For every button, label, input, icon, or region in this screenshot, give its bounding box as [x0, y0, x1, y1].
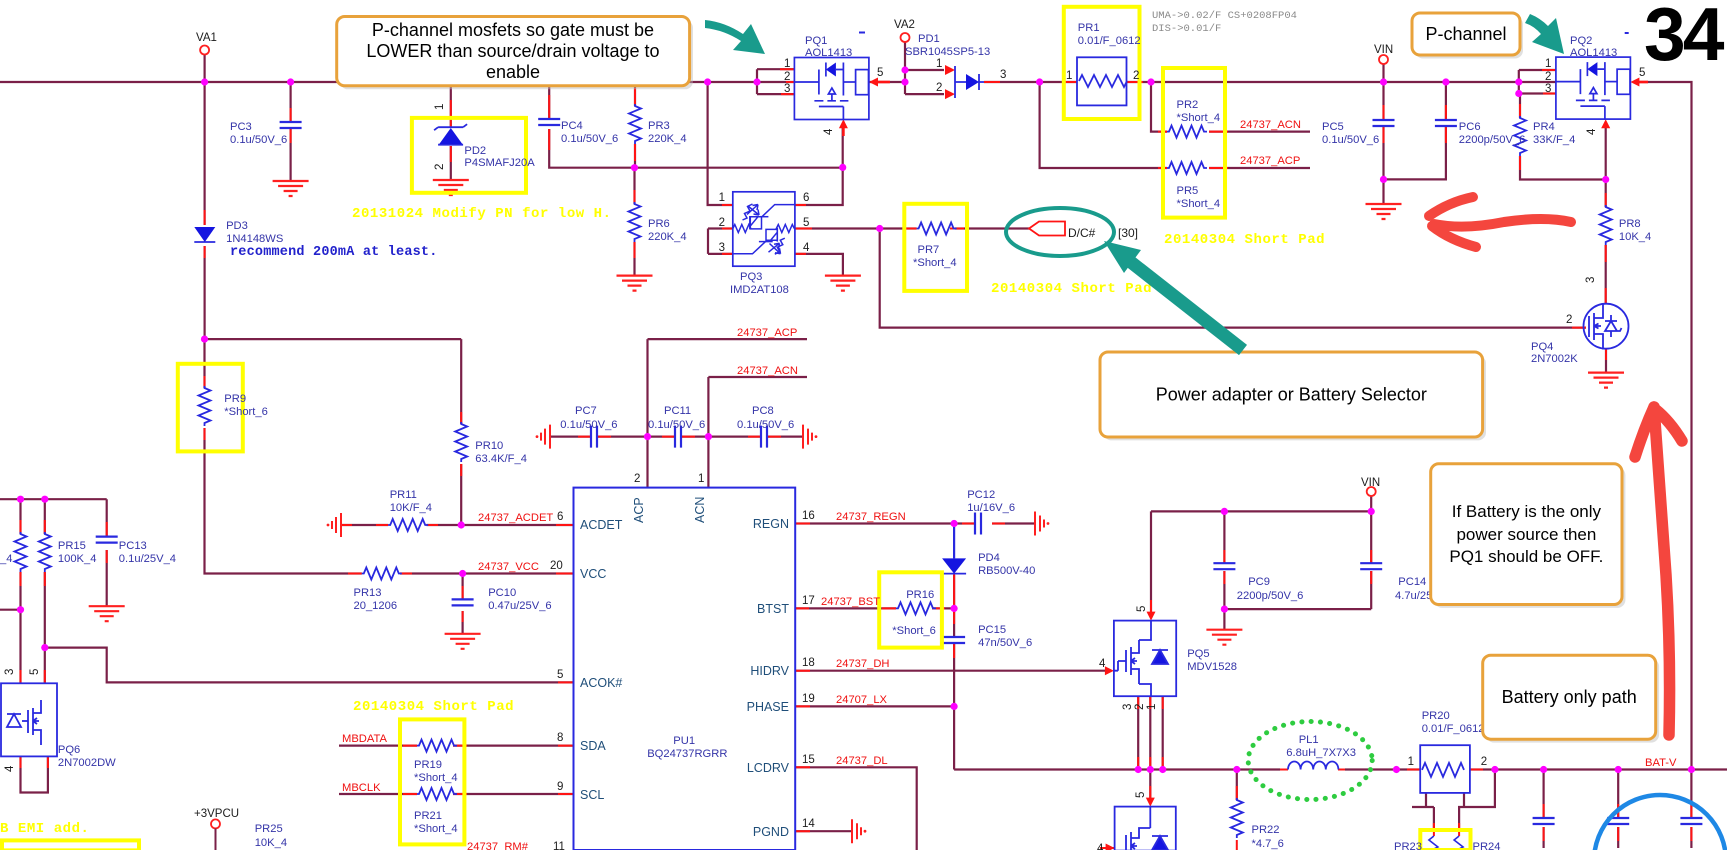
box resistor PR20	[1420, 745, 1470, 793]
wire LCDRV net	[795, 767, 917, 850]
svg-text:20: 20	[550, 560, 563, 572]
wire PQ2 source bracket pins 1,2,3	[1519, 70, 1556, 94]
pin arrow PQ5B pin5 top	[1146, 798, 1155, 807]
svg-text:20131024 Modify PN for low H.: 20131024 Modify PN for low H.	[352, 206, 612, 222]
svg-text:1: 1	[1146, 704, 1158, 710]
svg-text:3: 3	[1122, 704, 1134, 710]
svg-text:1: 1	[698, 473, 704, 485]
resistor PR4	[1514, 116, 1526, 156]
wire PD1 anode stubs	[905, 70, 944, 94]
capacitor BAT cap3	[1680, 818, 1702, 824]
svg-text:15: 15	[802, 754, 815, 766]
svg-text:PR25: PR25	[255, 823, 283, 835]
svg-text:24737_ACN: 24737_ACN	[737, 365, 798, 377]
pin stub left resistors	[21, 520, 45, 586]
wire PQ2 gate down	[1605, 126, 1607, 180]
svg-text:PC3: PC3	[230, 121, 252, 133]
wire VIN2 stub	[1370, 496, 1372, 511]
svg-text:2: 2	[1481, 756, 1487, 768]
svg-text:4: 4	[823, 128, 835, 135]
svg-text:PQ4: PQ4	[1531, 341, 1553, 353]
resistor PR11	[388, 519, 428, 531]
wire PR15 branch	[44, 499, 46, 647]
svg-text:PHASE: PHASE	[747, 700, 789, 714]
svg-text:PR3: PR3	[648, 120, 670, 132]
teal arrow to D/C#	[1127, 259, 1243, 350]
svg-text:[30]: [30]	[1118, 226, 1138, 240]
svg-text:*Short_4: *Short_4	[414, 772, 458, 784]
pin arrow PQ2 pin4	[1601, 119, 1610, 128]
pin stub PL1	[1280, 769, 1345, 771]
node PQ3 feed	[704, 78, 711, 85]
wire PR2 out 24737_ACN	[1209, 131, 1310, 133]
svg-text:SBR1045SP5-13: SBR1045SP5-13	[905, 46, 990, 58]
node PQ3 pin5	[876, 225, 883, 232]
wire REGN net	[795, 522, 1035, 524]
diode PD3	[194, 227, 215, 242]
node PQ5 p3	[1135, 766, 1142, 773]
pin stub PR3	[634, 88, 636, 161]
svg-text:enable: enable	[486, 62, 540, 82]
capacitor PC8	[761, 426, 767, 448]
svg-text:6.8uH_7X7X3: 6.8uH_7X7X3	[1286, 747, 1356, 759]
node BAT cap1	[1540, 766, 1547, 773]
wire PR1 out to VIN rail	[1127, 81, 1384, 83]
svg-text:3: 3	[784, 83, 790, 95]
wire cap row PC7 PC11 PC8	[550, 436, 803, 438]
wire HIDRV net to PQ5 gate	[795, 670, 1106, 672]
wire SCL net	[339, 793, 574, 795]
wire PC10 branch	[462, 574, 464, 634]
pin stub PQ2 pins	[1542, 70, 1556, 94]
svg-text:2: 2	[1545, 71, 1551, 83]
svg-text:24737_DL: 24737_DL	[836, 755, 888, 767]
svg-text:PD2: PD2	[464, 145, 486, 157]
svg-text:PR10: PR10	[475, 440, 503, 452]
wire PQ5 pins 3,2,1 down	[1138, 696, 1163, 769]
wire PD1 cathode to PR1	[984, 81, 1077, 83]
pin stub PR1	[1063, 81, 1143, 83]
svg-text:SDA: SDA	[580, 739, 606, 753]
node PQ2 src a	[1515, 78, 1522, 85]
n-mosfet PQ5B partial	[1115, 807, 1176, 850]
svg-text:0.1u/50V_6: 0.1u/50V_6	[561, 133, 618, 145]
svg-text:*Short_6: *Short_6	[892, 625, 936, 637]
svg-text:24737_ACDET: 24737_ACDET	[478, 512, 553, 524]
svg-text:4: 4	[4, 765, 16, 772]
svg-text:5: 5	[557, 669, 563, 681]
node left d	[41, 644, 48, 651]
highlight box PR1	[1064, 7, 1140, 119]
svg-text:1: 1	[1066, 70, 1072, 82]
resistor PR22	[1231, 798, 1243, 838]
svg-text:PC4: PC4	[561, 120, 583, 132]
ground PC13	[89, 606, 125, 621]
tiny mark above PQ1	[859, 32, 865, 34]
pin stub PQ5B	[1100, 786, 1150, 848]
pin stub PR6	[634, 190, 636, 258]
wire PC6 branch	[1384, 82, 1446, 179]
wire node to PR2	[1151, 82, 1167, 132]
svg-text:D/C#: D/C#	[1068, 226, 1096, 240]
svg-text:PQ1: PQ1	[805, 35, 827, 47]
svg-text:REGN: REGN	[753, 517, 789, 531]
pin arrow PQ1 pin5	[869, 78, 878, 87]
svg-text:IMD2AT108: IMD2AT108	[730, 284, 789, 296]
svg-text:PC14: PC14	[1398, 576, 1426, 588]
pin stub BAT-V caps	[1544, 804, 1692, 841]
svg-text:0.1u/50V_6: 0.1u/50V_6	[230, 134, 287, 146]
svg-text:47n/50V_6: 47n/50V_6	[978, 637, 1032, 649]
svg-text:11: 11	[553, 841, 565, 850]
svg-text:PC6: PC6	[1459, 121, 1481, 133]
capacitor PC15	[943, 637, 965, 643]
svg-text:*Short_4: *Short_4	[414, 823, 458, 835]
svg-text:24737_DH: 24737_DH	[836, 658, 890, 670]
wire PR20 kelvin hooks	[1412, 770, 1495, 833]
svg-text:4: 4	[1099, 658, 1106, 670]
svg-text:2200p/50V_6: 2200p/50V_6	[1459, 134, 1526, 146]
wire VIN stub	[1382, 64, 1384, 82]
svg-text:PR23: PR23	[1394, 841, 1422, 850]
red marker arrow up	[1635, 407, 1682, 735]
pin stub PQ6	[21, 670, 48, 768]
pin stub caps row	[578, 436, 781, 438]
pin stub PR11 ACDET	[341, 524, 574, 526]
svg-text:PQ3: PQ3	[740, 271, 762, 283]
terminal VA1	[200, 46, 209, 55]
svg-text:2N7002K: 2N7002K	[1531, 353, 1578, 365]
resistor PR3	[629, 104, 641, 144]
svg-text:PC9: PC9	[1248, 576, 1270, 588]
capacitor BAT cap1	[1533, 818, 1555, 824]
svg-text:PQ2: PQ2	[1570, 35, 1592, 47]
svg-text:DIS->0.01/F: DIS->0.01/F	[1152, 23, 1221, 35]
svg-text:2: 2	[1134, 704, 1146, 710]
node BTST	[951, 605, 958, 612]
capacitor PC14	[1360, 563, 1382, 569]
pin stub PC10	[462, 586, 464, 622]
svg-text:LCDRV: LCDRV	[747, 761, 790, 775]
node BAT cap2	[1615, 766, 1622, 773]
svg-text:PR7: PR7	[918, 244, 940, 256]
svg-text:34: 34	[1644, 0, 1725, 76]
node ACP cap	[644, 433, 651, 440]
svg-text:33K/F_4: 33K/F_4	[1533, 134, 1575, 146]
node VA2 b	[901, 78, 908, 85]
svg-text:power source then: power source then	[1456, 525, 1596, 544]
node PR6	[631, 164, 638, 171]
svg-text:1: 1	[1545, 58, 1551, 70]
svg-text:PD1: PD1	[918, 33, 940, 45]
svg-text:PR24: PR24	[1473, 841, 1501, 850]
svg-text:3: 3	[1000, 69, 1006, 81]
svg-text:PR4: PR4	[1533, 121, 1555, 133]
svg-text:*Short_4: *Short_4	[1177, 198, 1221, 210]
svg-text:1: 1	[936, 58, 942, 70]
node ACN rail	[839, 164, 846, 171]
npn pair PQ3	[733, 192, 795, 266]
svg-text:MBDATA: MBDATA	[342, 733, 387, 745]
svg-text:5: 5	[803, 217, 809, 229]
svg-text:2: 2	[936, 82, 942, 94]
svg-text:LOWER than source/drain voltag: LOWER than source/drain voltage to	[366, 41, 659, 61]
wire VA1 top rail	[0, 81, 757, 83]
svg-text:2: 2	[719, 217, 725, 229]
svg-text:0.1u/50V_6: 0.1u/50V_6	[560, 419, 617, 431]
svg-text:PD4: PD4	[978, 552, 1000, 564]
resistor PR6	[629, 202, 641, 242]
node REGN	[951, 520, 958, 527]
svg-text:5: 5	[29, 669, 41, 675]
bar ground ACDET left	[327, 513, 341, 537]
pin stub PQ4	[1570, 328, 1606, 360]
inductor PL1	[1288, 762, 1338, 770]
svg-text:3: 3	[1545, 83, 1551, 95]
node PR20 out	[1491, 766, 1498, 773]
wire +3VPCU stub	[215, 828, 217, 850]
svg-text:PR8: PR8	[1619, 218, 1641, 230]
wire PR4 branch	[1520, 94, 1606, 180]
svg-text:BQ24737RGRR: BQ24737RGRR	[647, 748, 727, 760]
red marker arrow left	[1429, 197, 1571, 247]
svg-text:SCL: SCL	[580, 788, 604, 802]
pin stub PD1 out	[984, 81, 1000, 83]
svg-text:UMA->0.02/F CS+0208FP04: UMA->0.02/F CS+0208FP04	[1152, 10, 1297, 22]
wire PGND stub	[795, 830, 852, 832]
pin stub PC5 PC6	[1384, 105, 1446, 143]
svg-text:PR1: PR1	[1078, 22, 1100, 34]
highlight box PR23 PR24	[1420, 830, 1470, 850]
pin stub SDA SCL rows	[403, 746, 574, 794]
svg-text:14: 14	[802, 818, 815, 830]
resistor PR8	[1600, 205, 1612, 245]
wire PC4 branch down to ACN rail	[549, 82, 843, 168]
svg-text:20_1206: 20_1206	[354, 600, 398, 612]
svg-text:PR22: PR22	[1252, 824, 1280, 836]
svg-text:AOL1413: AOL1413	[805, 47, 852, 59]
pin stub PQ5 bottom pins	[1138, 696, 1163, 769]
highlight box PR16	[879, 572, 942, 647]
capacitor PC11	[675, 426, 681, 448]
wire VIN rail to PQ2	[1384, 81, 1519, 83]
pin stub VIN2 rail	[1151, 550, 1371, 613]
pin arrow PD1 pin1	[945, 65, 955, 75]
tiny mark above PQ2	[1625, 32, 1629, 34]
node PR22	[1233, 766, 1240, 773]
node PC9 bottom	[1221, 606, 1228, 613]
svg-text:PR2: PR2	[1177, 99, 1199, 111]
callout Battery only path	[1483, 655, 1659, 742]
svg-text:HIDRV: HIDRV	[750, 664, 789, 678]
node VA2 a	[901, 66, 908, 73]
wire PQ1 drain to VA2 node	[869, 81, 905, 83]
svg-text:2200p/50V_6: 2200p/50V_6	[1237, 590, 1304, 602]
wire VA1 vertical down through PD3 to PR9	[205, 82, 362, 574]
svg-text:18: 18	[802, 657, 815, 669]
svg-text:4: 4	[803, 242, 810, 254]
node ACDET	[458, 521, 465, 528]
svg-text:PC10: PC10	[488, 587, 516, 599]
svg-text:P-channel mosfets so gate must: P-channel mosfets so gate must be	[372, 20, 654, 40]
pin arrow PQ5 pin5 top	[1147, 612, 1156, 621]
svg-text:PR9: PR9	[224, 393, 246, 405]
svg-text:*Short_4: *Short_4	[913, 257, 957, 269]
svg-text:Power adapter or Battery Selec: Power adapter or Battery Selector	[1156, 385, 1427, 405]
svg-text:PQ5: PQ5	[1187, 648, 1209, 660]
svg-text:3: 3	[719, 242, 725, 254]
wire VA2 stub	[904, 42, 906, 94]
pin stub PR16	[882, 607, 945, 609]
resistor PR9	[199, 386, 211, 426]
p-mosfet PQ1	[794, 58, 869, 120]
node PQ5 p2	[1147, 766, 1154, 773]
wire PC5 branch	[1382, 82, 1384, 204]
capacitor BAT cap2	[1607, 818, 1629, 824]
node PC9 top	[1221, 508, 1228, 515]
IC PU1 BQ24737RGRR	[574, 488, 796, 850]
svg-text:2: 2	[784, 71, 790, 83]
svg-text:1u/16V_6: 1u/16V_6	[967, 502, 1015, 514]
box resistor PR1	[1077, 57, 1127, 105]
wire PD4 link	[953, 524, 955, 559]
svg-text:P4SMAFJ20A: P4SMAFJ20A	[464, 157, 535, 169]
node ACP tap	[1036, 78, 1043, 85]
svg-text:6: 6	[557, 511, 563, 523]
wire PQ5 drain from VIN	[1150, 511, 1152, 613]
capacitor PC3	[280, 122, 302, 128]
resistor PR5	[1167, 162, 1207, 174]
svg-text:2: 2	[434, 164, 446, 170]
highlight box PD2	[412, 118, 526, 193]
svg-text:PR5: PR5	[1177, 185, 1199, 197]
svg-text:2N7002DW: 2N7002DW	[58, 757, 116, 769]
wire PQ1 gate down to PQ3 pin6	[795, 126, 843, 205]
svg-text:PR11: PR11	[390, 489, 417, 501]
capacitor PC13	[96, 537, 118, 543]
capacitor PC5	[1373, 120, 1395, 126]
resistor PR13	[362, 568, 402, 580]
capacitor PC7	[591, 426, 597, 448]
svg-text:PC5: PC5	[1322, 121, 1344, 133]
node PQ5 p1	[1159, 766, 1166, 773]
svg-text:PC13: PC13	[119, 540, 147, 552]
wire PC9 branch	[1224, 511, 1371, 629]
svg-text:AOL1413: AOL1413	[1570, 47, 1617, 59]
node PL1 out	[1393, 766, 1400, 773]
wire PR9/PR10 link	[205, 339, 462, 525]
svg-text:MDV1528: MDV1528	[1187, 661, 1237, 673]
highlight box PR2 PR5	[1163, 68, 1225, 218]
pin stub PC3	[290, 108, 292, 143]
wire PC15 branch and LX vertical	[953, 608, 955, 769]
svg-text:PR16: PR16	[906, 589, 934, 601]
port D/C#	[1029, 222, 1065, 236]
svg-text:16: 16	[802, 510, 815, 522]
svg-text:5: 5	[877, 67, 883, 79]
wire PR8 to PQ4 drain	[1605, 180, 1607, 304]
pin stub PR23 PR24	[1434, 823, 1459, 836]
wire PD2 branch	[450, 82, 452, 180]
node VCC	[459, 570, 466, 577]
bar ground caps row left	[536, 425, 550, 449]
node VIN2	[1368, 508, 1375, 515]
bar ground REGN	[1035, 512, 1049, 536]
svg-text:PR20: PR20	[1422, 710, 1450, 722]
svg-text:20140304 Short Pad: 20140304 Short Pad	[353, 699, 514, 715]
n-mosfet PQ5	[1114, 621, 1176, 697]
svg-text:PR6: PR6	[648, 218, 670, 230]
svg-text:PC11: PC11	[664, 405, 691, 417]
bar ground caps row right	[803, 425, 817, 449]
pin stub PR8	[1605, 193, 1607, 304]
wire BAT-V caps	[1544, 770, 1692, 849]
pin stub PD3	[204, 210, 206, 258]
wire left rail upper	[0, 499, 107, 606]
svg-text:*4.7_6: *4.7_6	[1252, 838, 1284, 850]
pin stub PC12	[962, 523, 1005, 525]
svg-text:1: 1	[434, 104, 446, 110]
svg-text:8: 8	[557, 732, 563, 744]
wire PQ3 pin5 down to PQ4 gate	[880, 229, 1586, 328]
pin stub PR7	[903, 228, 964, 230]
resistor PR2	[1167, 126, 1207, 138]
wire PQ3 pin5 to PR7 and D/C#	[795, 227, 1029, 229]
bar ground PGND	[852, 819, 866, 843]
wire VCC net	[400, 572, 574, 574]
svg-text:10K_4: 10K_4	[255, 837, 287, 849]
svg-text:24737_ACP: 24737_ACP	[1240, 155, 1300, 167]
pin stub PR22	[1236, 786, 1238, 850]
terminal +3VPCU	[211, 819, 220, 828]
svg-text:6: 6	[803, 192, 809, 204]
wire ACDET net	[341, 524, 574, 526]
svg-text:20140304 Short Pad: 20140304 Short Pad	[991, 281, 1152, 297]
wire PQ2 drain to right edge and down (BAT-V)	[1636, 82, 1692, 770]
zener diode PD2	[434, 124, 467, 145]
terminal VIN2	[1367, 487, 1376, 496]
svg-text:63.4K/F_4: 63.4K/F_4	[475, 453, 527, 465]
pin stub PR4	[1519, 104, 1521, 170]
node ACN cap	[705, 433, 712, 440]
svg-text:PR19: PR19	[414, 759, 442, 771]
svg-text:17: 17	[802, 595, 815, 607]
svg-text:20140304 Short Pad: 20140304 Short Pad	[1164, 232, 1325, 248]
wire SDA net	[339, 744, 574, 746]
diode PD1 with bracket	[955, 66, 984, 98]
diode PD4	[942, 558, 966, 573]
svg-text:0.01/F_0612: 0.01/F_0612	[1078, 35, 1141, 47]
green dotted ellipse PL1	[1248, 722, 1372, 800]
svg-text:MBCLK: MBCLK	[342, 782, 381, 794]
n-mosfet PQ4	[1584, 304, 1629, 350]
pin stub ACOK#	[558, 681, 574, 683]
svg-text:PC8: PC8	[752, 405, 774, 417]
svg-text:5: 5	[1135, 792, 1147, 798]
svg-text:ACN: ACN	[693, 497, 707, 523]
svg-text:3: 3	[1585, 277, 1597, 283]
svg-text:0.01/F_0612: 0.01/F_0612	[1422, 723, 1485, 735]
wire PHASE net	[795, 705, 954, 707]
pin arrow PQ2 pin5	[1630, 78, 1639, 87]
node PQ2 src b	[1515, 90, 1522, 97]
svg-text:PC15: PC15	[978, 624, 1006, 636]
svg-text:VCC: VCC	[580, 567, 606, 581]
callout If Battery	[1431, 464, 1626, 608]
pin stub PR13 VCC	[348, 573, 574, 575]
svg-text:PU1: PU1	[673, 735, 695, 747]
svg-text:*Short_6: *Short_6	[224, 406, 268, 418]
